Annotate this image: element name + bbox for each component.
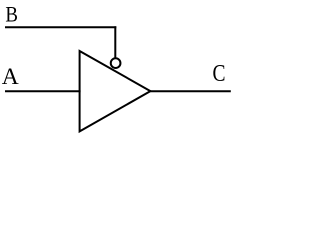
svg-text:C: C	[213, 61, 226, 87]
wire B horizontal segment	[5, 26, 116, 28]
wire A (input)	[5, 90, 81, 92]
svg-text:A: A	[2, 64, 19, 90]
buffer U1 (tri-state buffer triangle)	[80, 51, 151, 131]
wire B vertical segment	[114, 26, 116, 58]
wire C (output)	[150, 90, 230, 92]
svg-text:B: B	[5, 1, 18, 26]
active-low enable bubble	[111, 58, 121, 68]
